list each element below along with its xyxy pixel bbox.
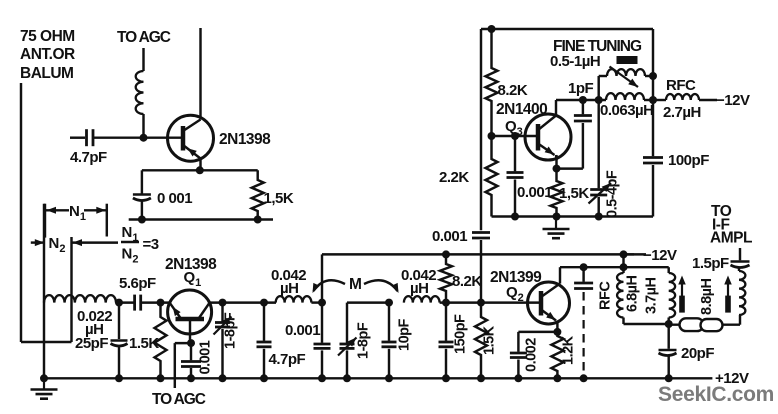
svg-text:75 OHM: 75 OHM: [20, 28, 75, 45]
svg-text:8.8µH: 8.8µH: [699, 278, 715, 315]
svg-text:2N1398: 2N1398: [219, 131, 271, 148]
svg-text:1.5K: 1.5K: [129, 335, 159, 352]
svg-text:100pF: 100pF: [668, 152, 709, 169]
svg-text:5.6pF: 5.6pF: [119, 275, 156, 292]
svg-text:0.5-1µH: 0.5-1µH: [550, 53, 600, 70]
svg-text:0.001: 0.001: [517, 184, 552, 201]
svg-text:2.2K: 2.2K: [439, 169, 469, 186]
svg-text:1.5K: 1.5K: [482, 325, 498, 355]
svg-text:0.5-4pF: 0.5-4pF: [605, 170, 621, 218]
svg-text:TO AGC: TO AGC: [117, 29, 171, 46]
svg-text:150pF: 150pF: [453, 314, 469, 354]
svg-text:−12V: −12V: [716, 92, 750, 109]
svg-text:8.2K: 8.2K: [452, 273, 482, 290]
svg-text:10pF: 10pF: [397, 319, 413, 351]
svg-text:0.063µH: 0.063µH: [600, 102, 654, 119]
svg-text:TO AGC: TO AGC: [152, 391, 206, 408]
svg-text:BALUM: BALUM: [20, 65, 73, 82]
svg-text:3.7µH: 3.7µH: [644, 277, 660, 314]
svg-text:4.7pF: 4.7pF: [70, 149, 107, 166]
svg-text:1-8pF: 1-8pF: [223, 312, 239, 349]
svg-text:M: M: [349, 276, 361, 293]
svg-text:1,5K: 1,5K: [559, 185, 589, 202]
svg-text:4.7pF: 4.7pF: [269, 351, 306, 368]
svg-text:2.7µH: 2.7µH: [663, 104, 701, 121]
svg-text:1.5pF: 1.5pF: [692, 255, 729, 272]
svg-text:ANT.OR: ANT.OR: [20, 46, 75, 63]
svg-text:8.2K: 8.2K: [498, 82, 528, 99]
svg-text:20pF: 20pF: [681, 345, 714, 362]
svg-text:RFC: RFC: [666, 77, 696, 94]
svg-text:AMPL: AMPL: [710, 230, 752, 247]
svg-text:0.002: 0.002: [524, 338, 540, 372]
svg-text:−12V: −12V: [643, 247, 677, 264]
svg-text:SeekIC.com: SeekIC.com: [658, 383, 774, 406]
svg-text:0.001: 0.001: [198, 340, 214, 374]
svg-text:=3: =3: [143, 236, 159, 253]
svg-text:1.2K: 1.2K: [561, 335, 577, 365]
svg-text:µH: µH: [410, 280, 428, 297]
svg-text:0.001: 0.001: [432, 228, 467, 245]
svg-text:1,5K: 1,5K: [264, 190, 294, 207]
svg-text:1-8pF: 1-8pF: [356, 322, 372, 359]
svg-text:6.8µH: 6.8µH: [625, 275, 641, 312]
svg-text:0.001: 0.001: [285, 322, 320, 339]
svg-text:RFC: RFC: [598, 281, 614, 310]
svg-text:1pF: 1pF: [568, 80, 594, 97]
svg-text:25pF: 25pF: [75, 335, 108, 352]
svg-text:µH: µH: [280, 280, 298, 297]
svg-text:0 001: 0 001: [157, 190, 192, 207]
